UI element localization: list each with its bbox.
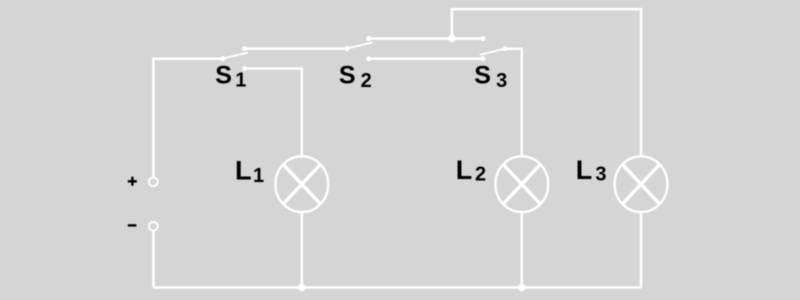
switch S3 lower throw contact [481, 56, 486, 61]
lamp L3 [615, 156, 668, 212]
node junction bottom L1 [298, 284, 306, 292]
switch S2 common contact [345, 46, 350, 51]
switch S1 lower throw contact [242, 66, 247, 71]
switch S1 common contact [220, 56, 225, 61]
wire: battery minus drop [152, 231, 155, 288]
terminal + circle [149, 177, 158, 186]
label + [128, 177, 137, 186]
node junction bottom L2 [518, 284, 526, 292]
wire: lamp L2 to bottom rail [521, 213, 524, 288]
label - [128, 224, 137, 226]
lamp L1 [275, 156, 328, 212]
switch S3 lever [480, 49, 505, 55]
switch S2 upper throw contact [366, 36, 371, 41]
svg-text:2: 2 [475, 164, 486, 186]
switch S3 common contact [503, 46, 508, 51]
switch S3 upper throw contact [480, 36, 485, 41]
wire: S1 lower throw to lamp L1 branch [245, 69, 302, 157]
wire: lamp L3 to bottom rail [640, 213, 643, 288]
svg-text:L: L [456, 155, 473, 185]
svg-text:2: 2 [361, 70, 372, 92]
terminal - circle [149, 222, 158, 231]
svg-text:3: 3 [496, 70, 507, 92]
svg-text:L: L [576, 155, 593, 185]
svg-text:1: 1 [253, 165, 264, 187]
switch S1 lever [223, 52, 248, 58]
wire: lamp L1 to bottom rail [301, 213, 304, 288]
switch S2 lever [347, 42, 372, 48]
node junction at top riser [448, 35, 456, 43]
wire: S2 lower throw to S3 lower throw [369, 58, 483, 61]
wire: S3 common to lamp L2 branch [505, 49, 522, 156]
wire: bottom rail [153, 286, 641, 289]
wire: top rail over to lamp L3 [452, 9, 641, 156]
svg-text:S: S [474, 62, 491, 90]
svg-text:L: L [235, 155, 252, 185]
switch S2 lower throw contact [366, 56, 371, 61]
wire: S2 upper throw through junction to S3 upper throw [369, 37, 483, 40]
svg-text:3: 3 [595, 164, 606, 186]
wire: battery plus riser to S1 [153, 59, 223, 178]
switch S1 upper throw contact [242, 46, 247, 51]
svg-text:S: S [339, 62, 356, 90]
svg-text:S: S [215, 62, 232, 90]
lamp L2 [495, 156, 548, 212]
wire: S1 upper throw to S2 common [245, 47, 348, 50]
svg-text:1: 1 [235, 70, 246, 92]
